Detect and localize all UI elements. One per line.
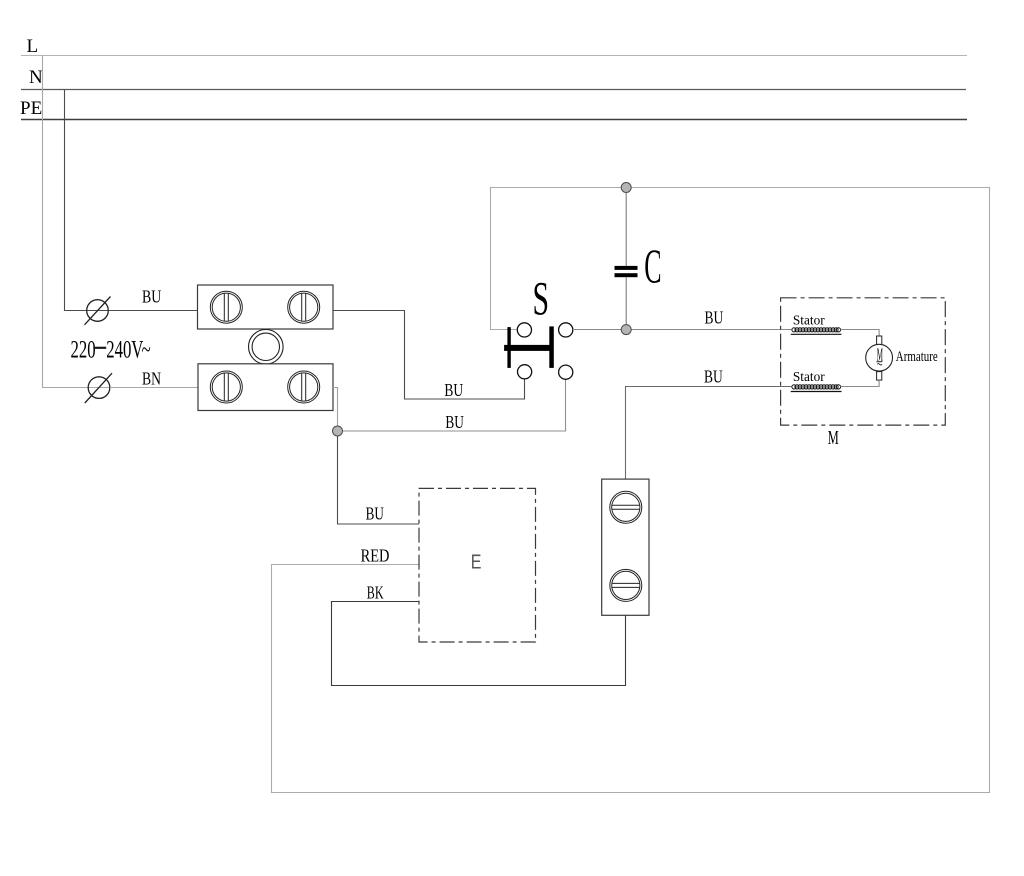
plug contact bottom (BN) [85, 373, 112, 403]
bus line L [21, 55, 967, 57]
svg-text:~: ~ [142, 335, 151, 363]
wire node J1 to switch S lower-right terminal [338, 379, 566, 431]
wire BN to terminal block [110, 387, 198, 389]
screw X1-2 [288, 291, 320, 323]
fuse/terminal block X3 [602, 479, 649, 615]
wire coil 2 to armature [841, 380, 880, 386]
svg-text:PE: PE [20, 98, 42, 119]
svg-text:BN: BN [142, 370, 161, 389]
wire BU to terminal block [109, 310, 198, 312]
svg-text:BU: BU [444, 381, 463, 400]
svg-text:M: M [828, 426, 839, 449]
RED loop wire: E box to switch upper-left terminal [272, 188, 990, 793]
plug contact top (BU) [85, 297, 111, 325]
svg-text:C: C [644, 240, 661, 294]
svg-text:BU: BU [142, 288, 162, 307]
terminal block X1 (upper) [198, 285, 334, 329]
switch S contact circles [517, 323, 573, 380]
svg-text:S: S [533, 271, 550, 325]
wire X1 to switch S lower-left terminal [333, 311, 525, 400]
wire motor stator 2 to fuse block [626, 387, 792, 480]
stator coil 1 [792, 328, 841, 332]
terminal block X2 (lower) [198, 364, 333, 411]
svg-text:Stator: Stator [793, 312, 825, 327]
capacitor C wire bottom [625, 277, 627, 330]
cable bushing ring between blocks [248, 330, 283, 365]
screw X3-1 [610, 491, 642, 523]
svg-text:BK: BK [367, 583, 384, 603]
bus line N [21, 89, 966, 91]
wire X2 to node J1 [333, 388, 338, 427]
svg-text:N: N [29, 67, 43, 88]
node J1 [333, 426, 343, 436]
screw X2-2 [288, 371, 320, 403]
svg-text:BU: BU [704, 368, 723, 387]
wire switch to node J2 / motor stator 1 [573, 329, 792, 331]
svg-text:240V: 240V [106, 335, 144, 363]
stator coil 2 core [791, 391, 842, 393]
E box (dash-dot) [419, 488, 536, 642]
svg-text:E: E [471, 551, 482, 573]
stator coil 1 core [791, 333, 842, 335]
screw X2-1 [210, 371, 242, 403]
screw X1-1 [210, 291, 242, 323]
svg-text:220: 220 [71, 335, 96, 363]
node J3 (cap to RED loop) [621, 183, 631, 193]
svg-text:BU: BU [445, 413, 464, 432]
svg-text:Armature: Armature [896, 347, 938, 364]
capacitor C wire top [625, 188, 627, 267]
wire N drop to BU plug [65, 90, 87, 311]
armature brush top [877, 336, 882, 345]
motor M box (dash-dot) [781, 298, 946, 425]
switch S actuator bars [504, 326, 554, 368]
BK wire: E box to fuse block bottom [332, 602, 626, 686]
svg-text:Stator: Stator [793, 369, 825, 384]
wire L drop to BN plug [43, 56, 89, 388]
svg-text:BU: BU [366, 505, 385, 524]
armature rotor circle [866, 344, 893, 371]
stator coil 2 [792, 385, 841, 389]
bus line PE [21, 119, 967, 121]
screw X3-2 [610, 569, 642, 601]
svg-text:L: L [27, 36, 39, 57]
wire node J1 to E box [338, 436, 420, 524]
armature brush bottom [877, 372, 882, 381]
svg-text:RED: RED [361, 545, 390, 566]
capacitor C plates [615, 266, 638, 270]
node J2 [621, 325, 631, 335]
svg-text:BU: BU [705, 309, 724, 328]
wire coil 1 to armature [841, 330, 880, 337]
